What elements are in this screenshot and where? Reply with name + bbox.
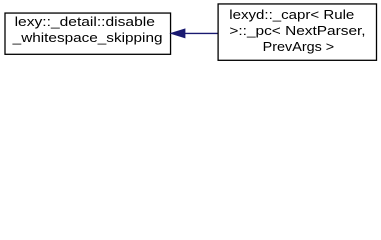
svg-text:PrevArgs >: PrevArgs > <box>263 39 335 54</box>
svg-text:lexy::_detail::disable: lexy::_detail::disable <box>15 14 155 29</box>
svg-text:_whitespace_skipping: _whitespace_skipping <box>12 30 163 45</box>
inheritance arrowhead <box>171 29 185 38</box>
svg-text:lexyd::_capr< Rule: lexyd::_capr< Rule <box>229 7 354 22</box>
svg-text:>::_pc< NextParser,: >::_pc< NextParser, <box>229 23 365 38</box>
inheritance edge wire <box>184 32 219 34</box>
node box: lexy::_detail::disable_whitespace_skipping <box>5 13 171 54</box>
node box: lexyd::_capr< Rule >::_pc< NextParser, PrevArgs > <box>218 4 376 60</box>
